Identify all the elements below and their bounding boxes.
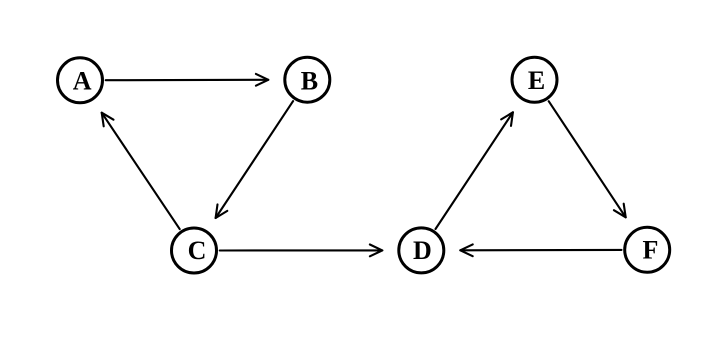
svg-text:D: D [413, 236, 432, 265]
node D [399, 228, 444, 273]
svg-text:C: C [188, 236, 207, 265]
svg-text:E: E [528, 66, 545, 95]
edge E to F (arrow) [549, 101, 626, 217]
edge B to C (arrow) [216, 101, 294, 218]
node B [285, 57, 330, 102]
node E [512, 57, 557, 102]
svg-text:F: F [643, 236, 659, 265]
node A [58, 58, 103, 103]
svg-text:A: A [73, 66, 92, 95]
svg-text:B: B [301, 66, 318, 95]
edge A to B (arrow) [106, 74, 269, 86]
node F [625, 227, 670, 272]
edge F to D (arrow) [460, 244, 621, 256]
node C [172, 228, 217, 273]
edge C to A (arrow) [102, 113, 180, 229]
edge D to E (arrow) [436, 112, 513, 229]
edge C to D (arrow) [220, 245, 383, 257]
